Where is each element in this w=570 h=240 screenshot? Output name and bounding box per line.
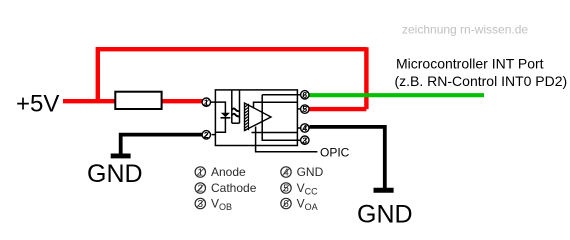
legend item 6 VOA <box>281 197 318 213</box>
svg-text:zeichnung rn-wissen.de: zeichnung rn-wissen.de <box>402 23 528 37</box>
wire green INT <box>309 93 485 97</box>
pin 5 <box>301 104 309 114</box>
svg-text:2: 2 <box>198 184 204 195</box>
svg-text:GND: GND <box>357 201 413 229</box>
wire pin2 stub <box>212 134 216 136</box>
svg-text:4: 4 <box>302 123 307 133</box>
svg-text:3: 3 <box>198 199 204 210</box>
svg-text:1: 1 <box>198 168 204 179</box>
ground left <box>111 153 131 158</box>
resistor R1 <box>115 92 161 109</box>
svg-text:Microcontroller INT Port: Microcontroller INT Port <box>396 56 544 72</box>
legend item 4 GND <box>281 165 324 179</box>
legend item 1 Anode <box>195 165 246 179</box>
svg-text:Cathode: Cathode <box>211 181 257 195</box>
inner vertical to pin3 <box>262 95 301 140</box>
svg-text:5: 5 <box>302 104 307 114</box>
legend item 2 Cathode <box>195 181 257 195</box>
package box <box>215 90 297 146</box>
pin 1 <box>202 97 210 107</box>
svg-text:1: 1 <box>204 97 209 107</box>
wire Vcc stub from amp <box>254 102 298 108</box>
light slot left wall <box>231 90 233 123</box>
pin 6 <box>301 90 309 100</box>
pin 4 <box>301 123 309 133</box>
legend item 5 VCC <box>281 181 318 197</box>
legend item 3 VOB <box>195 197 232 213</box>
svg-text:OPIC: OPIC <box>320 146 350 160</box>
svg-text:Anode: Anode <box>211 165 246 179</box>
op-amp / optocoupler U1 body <box>211 90 318 152</box>
LED D1 <box>221 113 230 118</box>
amplifier triangle <box>245 103 272 131</box>
svg-text:3: 3 <box>302 135 307 145</box>
wire pin1 to LED anode <box>211 102 226 113</box>
svg-text:2: 2 <box>204 130 209 140</box>
legend <box>195 165 324 212</box>
svg-text:5: 5 <box>283 184 289 195</box>
svg-text:(z.B. RN-Control INT0 PD2): (z.B. RN-Control INT0 PD2) <box>395 73 568 89</box>
wire bottom line B <box>252 132 298 134</box>
light rays <box>232 108 239 111</box>
light slot bottom <box>232 122 240 124</box>
wire black pin4 to GND <box>310 127 385 188</box>
pin 2 <box>202 130 210 140</box>
photodetector hatched bar <box>245 104 249 131</box>
LED cathode lead <box>216 118 226 133</box>
wire black pin2 to GND <box>121 135 204 154</box>
svg-text:+5V: +5V <box>16 91 59 118</box>
svg-text:4: 4 <box>283 168 289 179</box>
svg-text:6: 6 <box>302 90 307 100</box>
svg-text:GND: GND <box>297 165 324 179</box>
wire red +5V rail <box>63 47 366 109</box>
ground right <box>374 188 394 193</box>
pin 3 <box>301 135 309 145</box>
svg-text:6: 6 <box>283 199 289 210</box>
svg-text:GND: GND <box>87 160 143 188</box>
wire pin5 stub <box>297 108 300 110</box>
wire pin4 stub <box>297 127 300 129</box>
light slot right wall <box>239 90 241 123</box>
OPIC pointer line <box>256 127 318 152</box>
wire pin6 output line <box>262 94 300 96</box>
